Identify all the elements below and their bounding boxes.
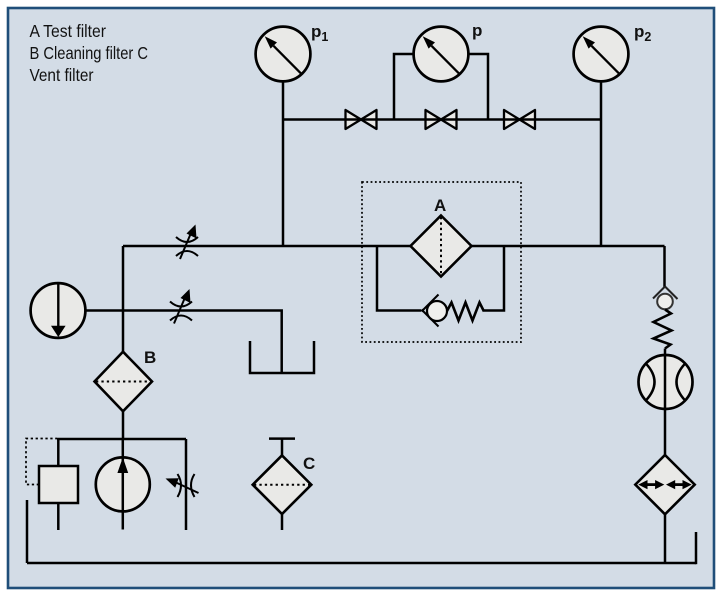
wire: return line right stub — [695, 532, 698, 564]
wire: P2 stem — [600, 81, 603, 246]
check valve seat (right branch) — [653, 287, 678, 300]
svg-text:p: p — [472, 21, 482, 40]
flow meter — [639, 355, 693, 409]
svg-text:Vent filter: Vent filter — [30, 65, 94, 85]
wire: P1 stem — [282, 81, 285, 246]
wire: main test line — [123, 245, 665, 248]
tank — [250, 341, 314, 373]
vent filter C: breather cap — [269, 439, 295, 456]
flow control valve (arcs + arrow) — [166, 474, 199, 497]
shut-off valve V2 — [426, 110, 457, 129]
svg-text:B Cleaning filter C: B Cleaning filter C — [30, 43, 149, 63]
wire: valve manifold line — [283, 118, 601, 121]
wire: diamond to return line — [664, 514, 667, 563]
check valve ball — [657, 294, 673, 310]
wire: bypass right drop — [484, 246, 504, 311]
dotted enclosure around filter A — [362, 182, 521, 342]
variable throttle T1 — [176, 225, 198, 260]
wire: return line left riser — [26, 500, 29, 563]
relief valve block — [39, 466, 78, 503]
wire: flow control branch — [185, 439, 188, 530]
wire: drop to filter B — [122, 246, 125, 352]
wire: relief block stem — [57, 439, 60, 466]
variable throttle T2 — [170, 289, 192, 324]
filter B — [95, 352, 153, 412]
pressure gauge P — [414, 27, 469, 82]
filter A — [411, 216, 472, 277]
bypass check valve seat — [422, 295, 439, 327]
bypass check valve ball — [427, 301, 447, 321]
bypass spring — [447, 303, 484, 321]
wire: supply line to tank — [86, 311, 282, 374]
shut-off valve V1 — [346, 110, 377, 129]
wire: pump manifold line — [57, 438, 186, 441]
bidirectional flow valve (diamond) — [635, 455, 694, 514]
svg-text:A: A — [434, 196, 446, 215]
wire: pump vertical pipe — [122, 439, 125, 530]
wire: right branch down — [663, 246, 666, 287]
svg-text:C: C — [303, 454, 315, 473]
pilot line (dotted) — [26, 439, 57, 485]
wire: filter C bottom stub — [281, 514, 284, 530]
pressure source (circle, down arrow) — [31, 283, 86, 338]
pressure gauge P2 — [574, 27, 629, 82]
legend text — [30, 21, 149, 85]
shut-off valve V3 — [504, 110, 535, 129]
pump (circle, up arrow) — [96, 457, 150, 511]
wire: filter B to pump manifold — [122, 411, 125, 440]
wire: relief block drain stub — [57, 503, 60, 530]
wire: pipe through flow meter — [664, 349, 667, 456]
wire: gauge P right drop — [468, 54, 488, 120]
wire: return line — [27, 562, 696, 565]
filter C — [253, 455, 312, 514]
wire: bypass left drop — [377, 246, 421, 311]
wire: gauge P left drop — [394, 54, 414, 120]
svg-text:A Test filter: A Test filter — [30, 21, 107, 41]
svg-text:B: B — [144, 348, 156, 367]
spring (right branch) — [654, 310, 672, 349]
bidirectional arrows — [638, 480, 691, 489]
pressure gauge P1 — [256, 27, 311, 82]
